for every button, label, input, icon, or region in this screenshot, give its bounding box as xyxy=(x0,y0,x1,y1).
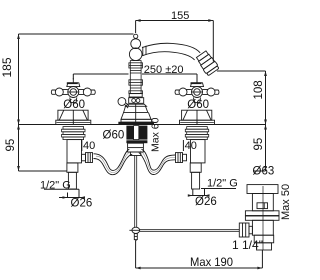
label 1/2 G right xyxy=(201,178,238,190)
svg-text:Ø60: Ø60 xyxy=(103,130,125,142)
svg-text:250 ±20: 250 ±20 xyxy=(144,64,184,76)
svg-text:1/2" G: 1/2" G xyxy=(40,179,71,191)
svg-text:185: 185 xyxy=(0,57,14,77)
right valve below deck: nut stack xyxy=(185,127,208,140)
svg-text:Ø26: Ø26 xyxy=(195,196,217,208)
svg-text:155: 155 xyxy=(171,10,189,22)
right valve hose nipple and nut xyxy=(176,153,187,163)
svg-text:108: 108 xyxy=(253,80,265,99)
left handle cross xyxy=(51,78,95,102)
svg-text:Ø60: Ø60 xyxy=(63,99,85,111)
left valve below deck: nut stack xyxy=(62,127,85,140)
left flex hose xyxy=(94,149,133,175)
svg-text:Ø63: Ø63 xyxy=(253,165,275,177)
column bell xyxy=(119,104,154,124)
dim 250 +-20 leader xyxy=(73,64,197,83)
column collar xyxy=(129,94,142,97)
svg-text:Ø26: Ø26 xyxy=(71,198,93,210)
waste tailpiece xyxy=(254,235,274,250)
left valve body xyxy=(67,140,82,189)
svg-text:95: 95 xyxy=(253,138,265,151)
right flex hose xyxy=(139,149,175,174)
popup rod knob xyxy=(129,227,139,241)
dim 95 left xyxy=(5,125,67,172)
right handle cross xyxy=(175,78,219,102)
svg-text:95: 95 xyxy=(5,139,17,152)
popup knob xyxy=(118,98,129,109)
finial ball xyxy=(131,39,141,49)
left bell base xyxy=(56,110,91,124)
right bell base xyxy=(180,110,215,124)
column diverter box xyxy=(129,98,144,104)
svg-text:1/2" G: 1/2" G xyxy=(207,178,238,190)
popup rod vertical xyxy=(135,156,137,228)
waste lower body xyxy=(252,220,273,235)
arm boss xyxy=(129,48,142,61)
waste lock rings xyxy=(245,211,279,221)
label 40 right xyxy=(183,140,196,152)
label 1/2 G left xyxy=(40,179,79,191)
left valve hose nipple and nut xyxy=(82,153,93,163)
dim 108 right xyxy=(217,71,267,171)
dim 155 xyxy=(136,10,214,62)
dim O26 left xyxy=(59,189,92,209)
spout arm xyxy=(142,43,200,60)
column below-deck shank (dark) xyxy=(126,126,147,144)
column lock nut xyxy=(128,143,144,155)
finial small ball xyxy=(134,34,138,38)
column neck with rings xyxy=(129,61,143,94)
aerator xyxy=(195,50,219,76)
svg-text:Ø60: Ø60 xyxy=(187,99,209,111)
svg-text:40: 40 xyxy=(83,140,95,152)
dim Max 190 xyxy=(136,241,263,269)
dim O26 right xyxy=(188,189,217,208)
dim 185 xyxy=(0,34,134,125)
label 40 left xyxy=(82,140,95,152)
right valve body xyxy=(190,140,205,189)
waste rod ball nut xyxy=(239,223,252,237)
waste upper body xyxy=(252,194,273,211)
svg-text:Max 190: Max 190 xyxy=(190,255,233,269)
popup horizontal rod xyxy=(140,229,240,231)
waste flange xyxy=(247,185,278,194)
waste center line xyxy=(262,186,264,250)
deck line xyxy=(19,124,266,126)
svg-text:Max 50: Max 50 xyxy=(280,184,292,220)
